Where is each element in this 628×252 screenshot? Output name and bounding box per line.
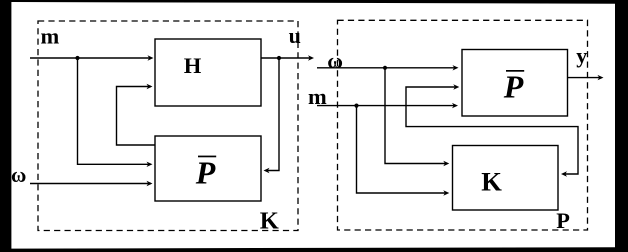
svg-text:y: y — [576, 43, 587, 68]
svg-text:ω: ω — [11, 163, 26, 187]
svg-text:P: P — [195, 154, 216, 190]
svg-text:H: H — [184, 53, 202, 78]
svg-text:K: K — [481, 166, 502, 196]
svg-text:m: m — [41, 24, 60, 49]
svg-text:P: P — [556, 208, 570, 233]
svg-text:ω: ω — [327, 49, 343, 73]
svg-text:P: P — [503, 68, 524, 104]
svg-text:K: K — [260, 207, 279, 234]
svg-text:u: u — [289, 23, 301, 48]
svg-text:m: m — [308, 84, 327, 109]
